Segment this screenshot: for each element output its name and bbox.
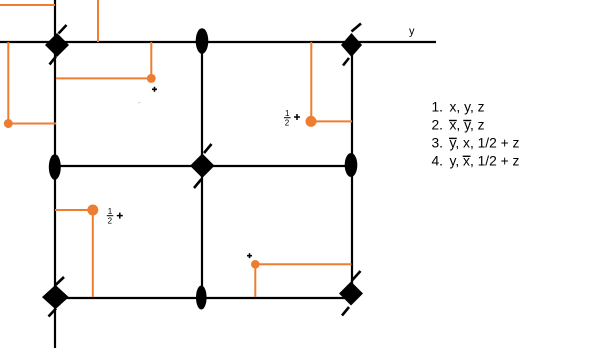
atom A3 connector: horizontal to left cell edge bbox=[8, 123, 56, 125]
wire: middle horizontal cell line bbox=[55, 165, 352, 167]
label: + height marker for atom A5 bbox=[247, 253, 252, 258]
symmetry axis E3: 2-fold axis ellipse, right edge midpoint bbox=[345, 153, 358, 177]
svg-text:y, x, 1/2 + z: y, x, 1/2 + z bbox=[450, 153, 520, 168]
wire: orange partial segment, top margin horizontal bbox=[0, 4, 55, 6]
svg-text:y, x, 1/2 + z: y, x, 1/2 + z bbox=[450, 136, 520, 151]
atom A5 connector: vertical down to bottom edge bbox=[254, 264, 256, 297]
symmetry axis S2: 4-2 screw axis diamond, top-right corner bbox=[341, 24, 362, 66]
label: 1/2 + height marker for atom A2 bbox=[284, 109, 291, 128]
svg-text:y: y bbox=[409, 26, 415, 38]
atom A3 connector: vertical drop from top edge at far left bbox=[7, 42, 9, 124]
svg-text:4.: 4. bbox=[432, 153, 444, 168]
symmetry axis E4: 2-fold axis ellipse, bottom edge midpoint bbox=[196, 286, 207, 310]
atom A3: orange position dot bbox=[4, 119, 13, 128]
label: equivalent positions list bbox=[432, 100, 520, 169]
atom A4: orange position dot bbox=[87, 205, 98, 216]
atom A1 connector: horizontal to left edge bbox=[56, 77, 151, 79]
wire: top cell edge (horizontal) bbox=[0, 41, 436, 43]
svg-text:x, y, z: x, y, z bbox=[450, 100, 485, 115]
svg-text:2.: 2. bbox=[432, 118, 444, 133]
atom A4 connector: vertical down to bottom edge bbox=[92, 210, 94, 297]
wire: middle vertical cell line bbox=[201, 41, 203, 298]
symmetry axis S5: 4-2 screw axis diamond, bottom-right corner bbox=[339, 271, 363, 316]
svg-text:3.: 3. bbox=[432, 136, 444, 151]
label: + height marker for atom A1 bbox=[152, 87, 157, 92]
symmetry axis S1: 4-2 screw axis diamond, top-left corner bbox=[45, 25, 69, 65]
svg-text:2: 2 bbox=[285, 119, 290, 128]
atom A1 connector: vertical drop from top edge bbox=[150, 42, 152, 78]
atom A5: orange position dot bbox=[251, 260, 260, 269]
svg-text:1: 1 bbox=[108, 207, 113, 216]
wire: orange partial segment, top margin vertical at x=98 bbox=[97, 0, 99, 42]
symmetry axis S3: 4-2 screw axis diamond, cell center bbox=[190, 144, 215, 188]
atom A2 connector: vertical drop from top edge bbox=[310, 42, 312, 121]
stray faint mark bbox=[138, 102, 141, 103]
atom A5 connector: horizontal to right cell edge bbox=[255, 263, 351, 265]
svg-text:1: 1 bbox=[285, 109, 290, 118]
wire: bottom cell edge (horizontal) bbox=[55, 297, 352, 299]
label: 1/2 + height marker for atom A4 bbox=[107, 207, 114, 226]
symmetry axis S4: 4-2 screw axis diamond, bottom-left corner bbox=[42, 277, 69, 317]
symmetry axis E1: 2-fold axis ellipse, top edge midpoint bbox=[196, 28, 209, 54]
atom A1: orange position dot bbox=[147, 74, 156, 83]
wire: right cell edge (vertical) bbox=[351, 44, 353, 293]
atom A4 connector: horizontal from left cell edge bbox=[55, 209, 93, 211]
wire: left cell edge (vertical) bbox=[54, 0, 56, 348]
atom A2: orange position dot bbox=[306, 116, 317, 127]
svg-text:1.: 1. bbox=[432, 100, 444, 115]
svg-text:2: 2 bbox=[108, 217, 113, 226]
atom A2 connector: horizontal to right edge bbox=[311, 120, 352, 122]
symmetry axis E2: 2-fold axis ellipse, left edge midpoint bbox=[49, 154, 61, 180]
